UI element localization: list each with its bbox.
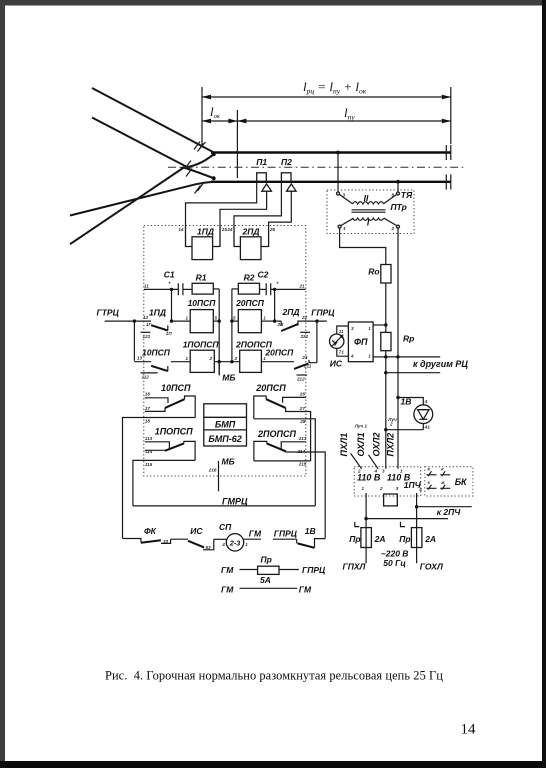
wire: C1 junction drop: [171, 289, 173, 321]
svg-text:1В: 1В: [305, 526, 316, 536]
svg-text:10ПСП: 10ПСП: [161, 383, 191, 393]
svg-text:25: 25: [269, 227, 276, 232]
wire: frog curve to top rail: [181, 154, 214, 168]
wire: к другим РЦ line 1: [386, 356, 440, 358]
svg-text:Пр: Пр: [349, 534, 360, 544]
wire: C2 junction drop: [274, 289, 276, 321]
svg-text:214: 214: [297, 449, 306, 454]
svg-text:БМП: БМП: [215, 419, 236, 429]
svg-text:1: 1: [263, 315, 266, 320]
svg-text:ГТРЦ: ГТРЦ: [97, 308, 120, 318]
svg-text:1: 1: [362, 486, 365, 491]
svg-text:1П: 1П: [166, 331, 173, 336]
svg-text:2: 2: [357, 469, 361, 474]
wire: GPRC drop: [316, 321, 318, 363]
svg-text:к 2ПЧ: к 2ПЧ: [437, 507, 462, 517]
back contact stub 221: [300, 331, 310, 333]
wire: line to BK from pin1: [366, 518, 448, 520]
wire: loop bottom left: [123, 539, 142, 543]
svg-text:1Г: 1Г: [146, 322, 152, 327]
wire SP to GM gap: [244, 538, 261, 540]
svg-text:5: 5: [215, 315, 218, 320]
svg-text:ж: ж: [440, 480, 445, 485]
contact FK: [141, 526, 171, 544]
node: C2 drop junction: [273, 319, 276, 322]
node: lamp 1V top tap: [396, 396, 399, 399]
svg-text:Ro: Ro: [368, 267, 379, 277]
wire: center column left (to MB): [218, 289, 220, 375]
wire after gap: [273, 538, 297, 540]
node: [230, 319, 233, 322]
contact 10PSP (row C left): [134, 321, 190, 371]
svg-text:+: +: [276, 281, 279, 286]
node: [384, 428, 387, 431]
resistor R1: [192, 273, 213, 294]
svg-text:2-3: 2-3: [229, 538, 241, 547]
dimension extension line middle: [236, 110, 238, 178]
svg-text:Rp: Rp: [403, 333, 414, 343]
wire: 1PCh pin4 down: [416, 493, 418, 528]
svg-text:П1: П1: [256, 157, 267, 167]
node: [218, 360, 221, 363]
contact IS: [188, 526, 214, 550]
svg-text:71: 71: [339, 350, 345, 355]
svg-text:12: 12: [143, 315, 149, 320]
wire: PHL1 feeder slant: [351, 453, 362, 468]
svg-text:1ПД: 1ПД: [149, 308, 166, 318]
svg-text:211: 211: [303, 363, 312, 368]
node: FP top tap: [384, 323, 387, 326]
svg-text:2ПД: 2ПД: [242, 227, 260, 237]
svg-text:33: 33: [163, 539, 169, 544]
svg-text:ПТр: ПТр: [391, 202, 407, 212]
transformer winding box under 1PCh: [384, 494, 398, 506]
svg-text:4: 4: [418, 487, 422, 492]
svg-text:R2: R2: [244, 273, 255, 283]
filter block FP: [348, 322, 373, 362]
svg-text:11: 11: [339, 329, 344, 334]
svg-text:1: 1: [400, 469, 403, 474]
power stub MB (lower) with pin 216: [218, 461, 220, 491]
wire: pin 18 return to outer loop: [123, 418, 196, 539]
svg-text:2: 2: [379, 486, 383, 491]
wire: pin 214 down to 1V contact: [306, 452, 325, 539]
svg-text:ГМРЦ: ГМРЦ: [222, 496, 248, 506]
contact 1POPSP (row 4 left): [145, 427, 195, 461]
insulated joint marks near frog center: [185, 161, 192, 177]
node: GTRC junction: [133, 319, 136, 322]
svg-text:18: 18: [145, 418, 151, 423]
node: C2 plus junction: [273, 288, 276, 291]
svg-text:28: 28: [299, 419, 306, 424]
wire: к другим РЦ line 2: [386, 372, 440, 374]
wire to GPHL: [365, 548, 367, 564]
svg-text:212: 212: [296, 376, 305, 381]
svg-text:ГПХЛ: ГПХЛ: [343, 562, 366, 572]
relay coil 20PSP: [235, 298, 265, 333]
contact 10PSP (row 3 left): [145, 383, 195, 418]
insulated joint marks on lower turnout curve: [195, 183, 204, 194]
svg-text:14: 14: [178, 227, 184, 232]
svg-text:110 В: 110 В: [357, 473, 381, 483]
wire: OHL1 feeder slant: [369, 455, 379, 469]
wire to relay 10PSP coil: [172, 320, 191, 322]
track connector P1: [256, 157, 271, 191]
svg-text:17: 17: [145, 406, 151, 411]
node: frog junction top rail: [212, 152, 216, 156]
node: к другим РЦ upper taps: [384, 355, 387, 358]
svg-text:1: 1: [186, 315, 189, 320]
transformer 2PD: [234, 226, 269, 260]
wire: frog curve to bottom rail: [184, 168, 214, 179]
relay coil 1POPSP: [183, 340, 220, 373]
svg-text:16: 16: [145, 392, 151, 397]
node: GPRC junction: [315, 319, 318, 322]
svg-text:1ПД: 1ПД: [197, 227, 214, 237]
svg-text:215: 215: [298, 461, 307, 466]
wire: pin 215 return: [254, 460, 311, 462]
transformer PTr: [337, 192, 407, 231]
svg-text:МБ: МБ: [222, 457, 235, 467]
wire C1 to R1: [183, 288, 192, 290]
svg-text:1: 1: [368, 354, 371, 359]
svg-text:ГМ: ГМ: [221, 565, 234, 575]
wire: pin 28 to GMRC loop right: [254, 419, 315, 506]
node: C1 plus junction: [170, 288, 173, 291]
svg-text:4: 4: [424, 399, 428, 404]
wire Rp down (OHL2): [385, 351, 387, 469]
wire: P1 left lead to 1PD: [186, 182, 257, 226]
capacitor C2: [258, 270, 271, 296]
back contact stub 212: [297, 374, 307, 376]
svg-text:ГМ: ГМ: [299, 584, 312, 594]
svg-text:2А: 2А: [424, 534, 436, 544]
svg-text:5А: 5А: [260, 575, 271, 585]
contact 1PD: [146, 308, 172, 336]
svg-text:БМП-62: БМП-62: [208, 434, 241, 444]
svg-text:11: 11: [144, 284, 149, 289]
wire to GOHL: [416, 548, 418, 564]
wire R1 to center column: [213, 288, 219, 290]
relay coil 2POPSP: [235, 340, 273, 373]
svg-text:4: 4: [374, 469, 378, 474]
svg-text:2: 2: [391, 226, 395, 231]
wire: PTr pin2 down (PHL2): [397, 228, 399, 468]
wire: bottom rail: [211, 181, 451, 183]
dimension extension line right: [450, 87, 452, 144]
wire: bottom rail to PTr pin 8: [397, 182, 399, 192]
svg-text:221: 221: [300, 334, 309, 339]
wire FK to IS: [171, 538, 188, 540]
wire: turnout outer diagonal lower: [70, 182, 214, 216]
svg-text:50 Гц: 50 Гц: [383, 558, 406, 568]
svg-text:22: 22: [301, 315, 308, 320]
svg-text:ГОХЛ: ГОХЛ: [420, 562, 443, 572]
svg-text:2: 2: [389, 422, 393, 427]
wire R2 to C2: [260, 288, 267, 290]
svg-text:2: 2: [209, 356, 213, 361]
svg-text:ТЯ: ТЯ: [401, 190, 413, 200]
svg-text:23: 23: [301, 355, 308, 360]
svg-text:R1: R1: [196, 273, 207, 283]
wire FP pin4 bottom: [373, 356, 386, 358]
resistor Ro: [368, 265, 391, 284]
wire between coils row C: [214, 361, 239, 363]
back contact stub 121: [141, 331, 151, 333]
wire: center column right: [231, 289, 233, 362]
fuse Pr 2A (left): [349, 522, 385, 548]
svg-text:216: 216: [208, 467, 217, 472]
svg-text:2: 2: [234, 356, 238, 361]
fuse Pr 2A (right): [399, 522, 436, 548]
contact 20PSP (row C right): [261, 348, 317, 369]
back contact stub 112: [141, 372, 158, 374]
svg-text:С1: С1: [164, 270, 175, 280]
wire: P1 right lead to 1PD: [220, 191, 267, 225]
node: [364, 517, 367, 520]
resistor R2: [238, 273, 259, 294]
svg-text:26: 26: [299, 392, 306, 397]
svg-text:10ПСП: 10ПСП: [188, 298, 217, 308]
wire: pin 115 to GMRC loop left: [133, 460, 195, 506]
transformer PTr dotted boundary: [327, 190, 414, 234]
BK contact marks: [427, 467, 451, 490]
svg-text:14: 14: [461, 722, 477, 738]
svg-text:20ПСП: 20ПСП: [264, 348, 294, 358]
relay cabinet dotted boundary: [144, 226, 306, 477]
svg-text:13: 13: [137, 356, 143, 361]
wire: lamp 1V return: [386, 429, 424, 431]
svg-text:3: 3: [382, 469, 385, 474]
svg-text:4: 4: [221, 542, 225, 547]
svg-text:к другим РЦ: к другим РЦ: [413, 359, 468, 369]
svg-text:112: 112: [142, 374, 150, 379]
svg-text:МБ: МБ: [222, 372, 235, 382]
wire center column to 20PSP coil: [232, 320, 238, 322]
svg-text:Рис. 4. Горочная нормально ра: Рис. 4. Горочная нормально разомкнутая р…: [105, 669, 443, 683]
wire: P2 right lead to 2PD: [269, 191, 292, 225]
wire R2 to center column: [232, 288, 238, 290]
svg-text:П2: П2: [281, 157, 292, 167]
contact 2POPSP (row 4 right): [254, 429, 307, 461]
svg-text:24: 24: [226, 227, 233, 232]
contact 2PD: [275, 307, 327, 331]
svg-text:27: 27: [299, 406, 306, 411]
wire: P2 left lead to 2PD: [234, 182, 281, 226]
svg-text:+: +: [168, 281, 171, 286]
track centerline (dash-dot): [168, 166, 464, 168]
svg-text:5: 5: [233, 315, 236, 320]
svg-text:3: 3: [396, 486, 399, 491]
svg-text:ИС: ИС: [330, 358, 343, 368]
svg-text:1: 1: [368, 326, 371, 331]
insulated joint marks on upper turnout curve: [194, 142, 204, 152]
svg-text:213: 213: [298, 436, 307, 441]
relay coil 10PSP: [188, 298, 217, 333]
node: C1 drop junction: [170, 319, 173, 322]
track connector P2: [281, 157, 296, 191]
svg-text:Пр: Пр: [261, 555, 272, 565]
transformer unit 1PCh dotted box: [354, 467, 421, 496]
svg-text:1ПОПСП: 1ПОПСП: [183, 340, 220, 350]
wire: PTr pin1 to Ro: [340, 228, 386, 264]
svg-text:ИС: ИС: [190, 526, 203, 536]
wire IS to SP: [214, 538, 227, 540]
node: [384, 371, 387, 374]
svg-text:20ПСП: 20ПСП: [255, 383, 286, 393]
node: [415, 505, 418, 508]
svg-text:2ПД: 2ПД: [282, 307, 300, 317]
lamp IS with arrow: [330, 326, 349, 368]
svg-text:1: 1: [186, 356, 189, 361]
resistor Rp: [381, 332, 415, 350]
wire: turnout inner diagonal upper: [92, 118, 190, 169]
wire C2 to pin 21: [271, 288, 306, 290]
node: [230, 360, 233, 363]
wire row GM - GM: [221, 584, 312, 594]
lamp 1V: [398, 396, 433, 429]
wire: GTRC feeder: [105, 320, 151, 322]
wire Ro to Rp: [385, 283, 387, 332]
svg-text:ОХЛ2: ОХЛ2: [371, 433, 381, 457]
svg-text:1ПОПСП: 1ПОПСП: [155, 427, 193, 437]
svg-text:53: 53: [206, 545, 212, 550]
wire: pin 27 link down to pin 215: [306, 412, 311, 462]
wire: turnout inner diagonal lower: [70, 166, 186, 244]
wire: GMRC loop bottom: [133, 505, 315, 507]
svg-text:4: 4: [350, 354, 354, 359]
dimension extension line left: [201, 87, 203, 147]
wire coil to center column: [213, 320, 219, 322]
svg-text:БК: БК: [455, 477, 468, 487]
svg-text:ФП: ФП: [354, 337, 368, 347]
svg-text:121: 121: [143, 334, 151, 339]
wire: row A left from pin 11: [144, 288, 178, 290]
node: bottom rail tap: [396, 180, 400, 184]
relay unit BK dotted box: [425, 467, 473, 496]
insulated joints at right end of rails: [446, 145, 451, 190]
svg-text:ГПРЦ: ГПРЦ: [311, 308, 335, 318]
node: top rail tap: [336, 151, 340, 155]
capacitor C1: [164, 270, 183, 296]
svg-text:3: 3: [351, 326, 354, 331]
svg-text:Пр: Пр: [399, 534, 410, 544]
fuse row GM - Pr 5A - GTRC: [221, 555, 326, 585]
svg-text:С2: С2: [258, 270, 269, 280]
wire: top rail to PTr pin 3: [337, 153, 339, 193]
contact 20PSP (row 3 right): [254, 383, 306, 419]
wire: к 2ПЧ line: [417, 506, 472, 508]
svg-text:ФК: ФК: [144, 526, 157, 536]
svg-text:10ПСП: 10ПСП: [142, 348, 171, 358]
svg-text:115: 115: [145, 462, 153, 467]
svg-text:ГПРЦ: ГПРЦ: [274, 528, 298, 538]
svg-text:41: 41: [424, 425, 431, 430]
motor/meter SP 2-3: [219, 522, 244, 551]
svg-text:ГМ: ГМ: [221, 584, 234, 594]
svg-text:ОХЛ1: ОХЛ1: [356, 433, 366, 457]
node: [218, 319, 221, 322]
wire: turnout outer diagonal upper: [92, 88, 214, 153]
svg-text:2П: 2П: [277, 322, 285, 327]
relay block BMP / BMP-62: [204, 404, 247, 446]
svg-text:СП: СП: [219, 522, 232, 532]
node: frog junction bottom rail: [212, 176, 216, 180]
svg-text:Луч 1: Луч 1: [354, 423, 368, 428]
svg-text:ПХЛ2: ПХЛ2: [385, 433, 395, 457]
wire FP pin1 top: [373, 324, 386, 326]
svg-text:114: 114: [145, 449, 153, 454]
contact 1V: [297, 526, 326, 548]
svg-text:2А: 2А: [374, 534, 386, 544]
svg-text:1: 1: [245, 542, 248, 547]
dimension line l_rc: [202, 96, 451, 98]
svg-text:20ПСП: 20ПСП: [235, 298, 265, 308]
svg-text:ГМ: ГМ: [249, 528, 262, 538]
wire coil to C2 junction: [261, 320, 274, 322]
svg-text:1: 1: [343, 226, 346, 231]
power stub MB (upper): [218, 362, 220, 376]
svg-text:2ПОПСП: 2ПОПСП: [257, 429, 296, 439]
transformer 1PD: [186, 226, 221, 260]
svg-text:113: 113: [145, 436, 153, 441]
wire: top rail: [211, 151, 451, 153]
dimension line l_ok / l_pu: [202, 120, 451, 122]
svg-text:ПХЛ1: ПХЛ1: [339, 433, 349, 457]
svg-text:21: 21: [299, 284, 306, 289]
wire: 1PCh pin1 down: [365, 493, 367, 528]
svg-text:ГПРЦ: ГПРЦ: [302, 565, 326, 575]
